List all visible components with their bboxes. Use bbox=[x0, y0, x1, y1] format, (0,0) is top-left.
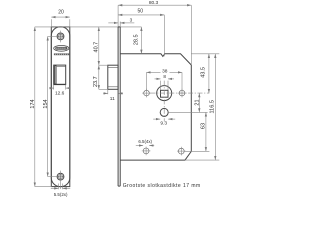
spindle centerlines bbox=[151, 81, 210, 122]
bottom screw hole bbox=[57, 171, 64, 189]
faceplate front view: rounded-corner variant outline bbox=[51, 27, 70, 187]
dim 21 bbox=[168, 93, 207, 112]
dim 23.7 bbox=[93, 65, 108, 89]
svg-text:174: 174 bbox=[30, 99, 36, 108]
dim 80.3 bbox=[118, 0, 191, 65]
dim 43.5 bbox=[191, 54, 219, 93]
dim 116.5 bbox=[185, 54, 219, 160]
latch bolt side view bbox=[108, 65, 118, 89]
svg-text:11: 11 bbox=[110, 96, 115, 102]
svg-text:50: 50 bbox=[138, 8, 144, 14]
dim 40.7 bbox=[94, 27, 100, 65]
dim 154 bbox=[43, 36, 57, 176]
bottom screw hole right bbox=[177, 147, 186, 156]
dim 8 bbox=[155, 74, 175, 90]
faceplate side view caps bbox=[118, 26, 120, 28]
svg-text:43.5: 43.5 bbox=[201, 67, 207, 78]
svg-text:40.7: 40.7 bbox=[94, 42, 100, 53]
top screw hole bbox=[57, 31, 64, 43]
dim 20 bbox=[51, 10, 70, 27]
dim 11 bbox=[103, 89, 123, 102]
dim 28.5 bbox=[134, 27, 142, 54]
svg-text:3: 3 bbox=[130, 17, 133, 22]
dim 9.3 bbox=[153, 119, 175, 126]
M5 hole left bbox=[142, 89, 151, 98]
dim 38 bbox=[147, 69, 183, 90]
faceplate front view: outer square-corner outline bbox=[51, 27, 70, 187]
svg-text:21: 21 bbox=[195, 99, 201, 105]
svg-text:28.5: 28.5 bbox=[134, 34, 140, 45]
spindle square 8mm bbox=[161, 90, 169, 97]
svg-text:12.6: 12.6 bbox=[55, 90, 65, 96]
svg-text:154: 154 bbox=[43, 99, 49, 108]
dim 6.5(4x) bbox=[136, 139, 154, 145]
svg-text:5.5(2x): 5.5(2x) bbox=[54, 192, 68, 197]
svg-text:Grootste slotkastdikte 17 mm: Grootste slotkastdikte 17 mm bbox=[123, 183, 201, 189]
svg-text:116.5: 116.5 bbox=[209, 100, 215, 113]
svg-text:8: 8 bbox=[163, 74, 166, 79]
spindle follower circle bbox=[157, 86, 172, 101]
svg-text:63: 63 bbox=[200, 123, 206, 129]
faceplate side view front line bbox=[117, 5, 119, 27]
dim 3 bbox=[108, 17, 134, 23]
M5 hole right bbox=[178, 89, 187, 98]
svg-text:9.3: 9.3 bbox=[160, 121, 167, 127]
dim 50 bbox=[118, 8, 164, 56]
faceplate side view back line bbox=[119, 22, 121, 27]
key hole 9.3 bbox=[160, 108, 168, 116]
dim 174 bbox=[30, 27, 141, 187]
bottom screw hole left bbox=[142, 147, 151, 156]
dim 12.6 bbox=[51, 85, 69, 97]
dim 5.5(2x) bbox=[51, 184, 70, 198]
dim 63 bbox=[184, 112, 209, 151]
logo text band bbox=[54, 53, 69, 55]
svg-text:20: 20 bbox=[58, 10, 64, 16]
svg-text:23.7: 23.7 bbox=[93, 76, 99, 87]
svg-text:80.3: 80.3 bbox=[149, 0, 159, 6]
latch opening bbox=[54, 65, 66, 85]
lock case outline bbox=[120, 54, 191, 160]
svg-text:6.5(4x): 6.5(4x) bbox=[138, 139, 152, 144]
logo oval NEMEF bbox=[54, 45, 69, 51]
